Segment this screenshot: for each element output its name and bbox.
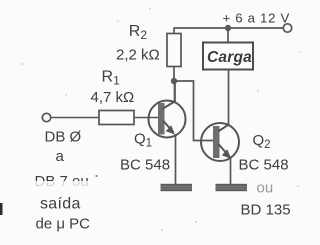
wire node to Q1 collector	[174, 81, 176, 103]
svg-text:saída: saída	[40, 196, 81, 213]
svg-text:2,2 kΩ: 2,2 kΩ	[116, 47, 160, 64]
wire node to Q2 base (L-shaped)	[174, 81, 215, 141]
wire Q2 emitter down	[230, 157, 232, 185]
edge mark left	[0, 203, 3, 215]
svg-text:ou: ou	[257, 180, 274, 197]
wire R1 to Q1 base	[134, 117, 159, 119]
svg-text:BC 548: BC 548	[120, 157, 170, 174]
node junction below R2	[171, 78, 177, 84]
transistor Q2	[201, 123, 239, 161]
svg-text:+ 6 a 12 V: + 6 a 12 V	[223, 11, 291, 26]
node junction at carga tap	[225, 25, 231, 31]
faint paper specks	[21, 8, 301, 232]
resistor R1 body	[99, 111, 134, 125]
terminal input open circle	[42, 113, 50, 121]
load box Carga	[203, 43, 253, 70]
wire junction to carga top	[227, 28, 229, 43]
wire rail to R2 top	[173, 28, 175, 34]
svg-text:a: a	[56, 148, 65, 165]
svg-text:4,7 kΩ: 4,7 kΩ	[91, 89, 135, 106]
svg-text:de μ PC: de μ PC	[36, 216, 91, 233]
resistor R2 body	[167, 34, 181, 67]
wire R2 bottom to node	[173, 67, 175, 82]
ground Q1	[161, 184, 193, 191]
wire carga bottom to Q2 collector	[228, 70, 230, 126]
svg-text:BC 548: BC 548	[239, 157, 289, 174]
terminal supply +6 a 12V open circle	[283, 24, 291, 32]
wire top supply rail	[174, 27, 284, 29]
svg-text:Carga: Carga	[207, 49, 252, 66]
wire input to R1	[51, 117, 99, 119]
speck near DB 7 ou	[95, 175, 97, 177]
svg-text:BD 135: BD 135	[241, 202, 291, 219]
wire Q1 emitter down	[175, 134, 177, 185]
transistor Q1	[149, 101, 186, 138]
svg-text:DB Ø: DB Ø	[45, 129, 82, 146]
ground Q2	[216, 184, 248, 191]
wire Q1 collector up	[174, 81, 176, 102]
